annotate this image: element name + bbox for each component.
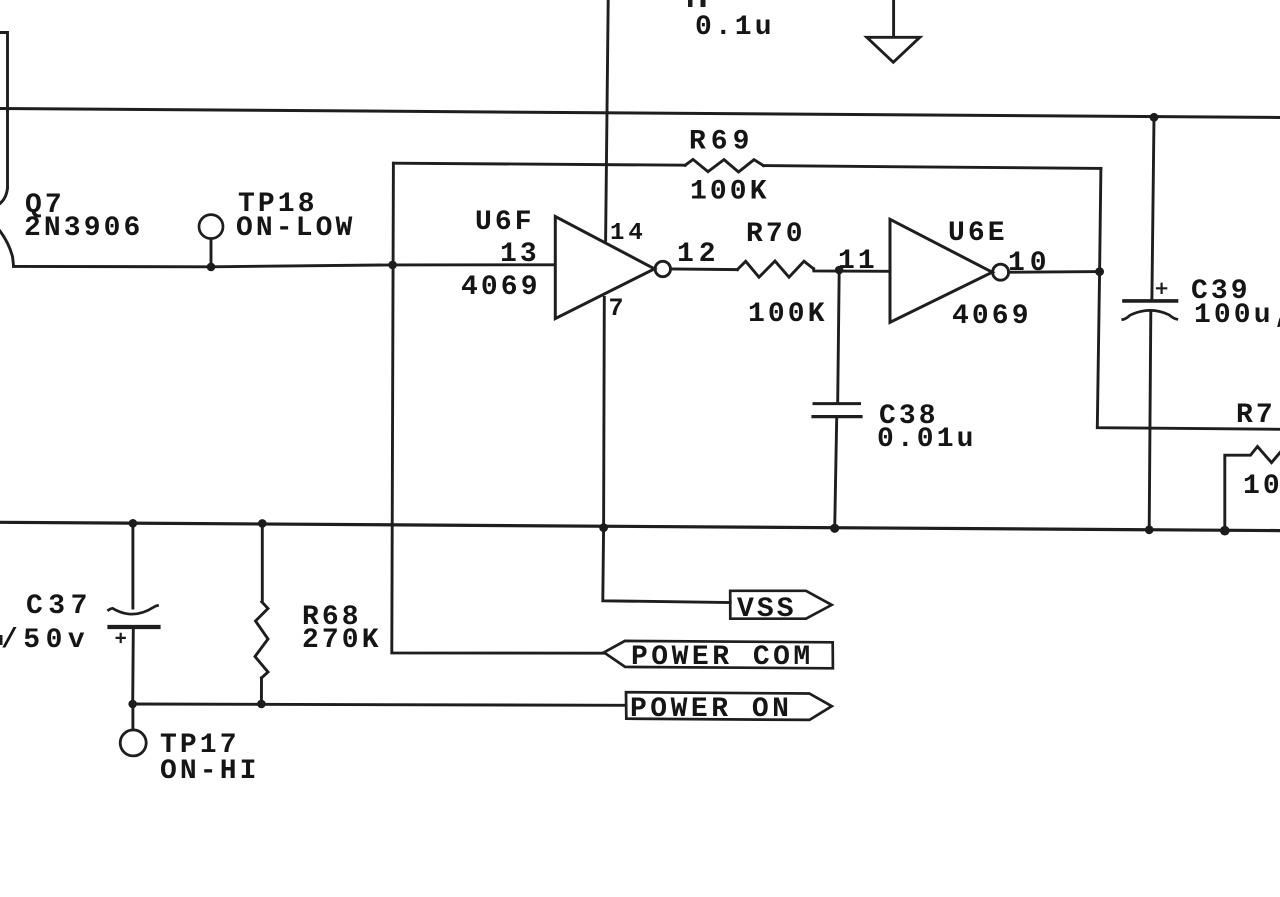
svg-text:0.01u: 0.01u bbox=[877, 424, 977, 455]
svg-text:R69: R69 bbox=[689, 127, 754, 158]
svg-text:POWER COM: POWER COM bbox=[631, 642, 814, 673]
svg-text:ON-LOW: ON-LOW bbox=[236, 213, 355, 244]
svg-text:/50v: /50v bbox=[1, 625, 90, 656]
svg-text:11: 11 bbox=[838, 246, 878, 277]
svg-text:POWER ON: POWER ON bbox=[630, 694, 792, 725]
svg-text:100K: 100K bbox=[690, 177, 770, 208]
svg-text:12: 12 bbox=[677, 239, 721, 270]
svg-text:13: 13 bbox=[500, 239, 540, 270]
svg-text:R70: R70 bbox=[746, 219, 806, 250]
svg-text:10: 10 bbox=[1243, 471, 1280, 502]
svg-text:10: 10 bbox=[1008, 248, 1052, 279]
svg-text:4069: 4069 bbox=[461, 272, 541, 303]
svg-text:100K: 100K bbox=[748, 299, 828, 330]
svg-text:C37: C37 bbox=[26, 591, 93, 622]
svg-text:2N3906: 2N3906 bbox=[24, 213, 143, 244]
svg-text:4069: 4069 bbox=[952, 301, 1032, 332]
svg-text:270K: 270K bbox=[302, 625, 382, 656]
svg-text:U6F: U6F bbox=[475, 207, 535, 238]
svg-text:VSS: VSS bbox=[737, 594, 797, 625]
svg-text:0.1u: 0.1u bbox=[695, 12, 775, 43]
svg-text:7: 7 bbox=[609, 294, 627, 323]
svg-text:U6E: U6E bbox=[948, 218, 1008, 249]
svg-text:14: 14 bbox=[610, 220, 647, 247]
svg-text:R7: R7 bbox=[1236, 400, 1276, 431]
svg-text:ON-HI: ON-HI bbox=[160, 756, 260, 787]
svg-text:100u,: 100u, bbox=[1194, 300, 1280, 331]
